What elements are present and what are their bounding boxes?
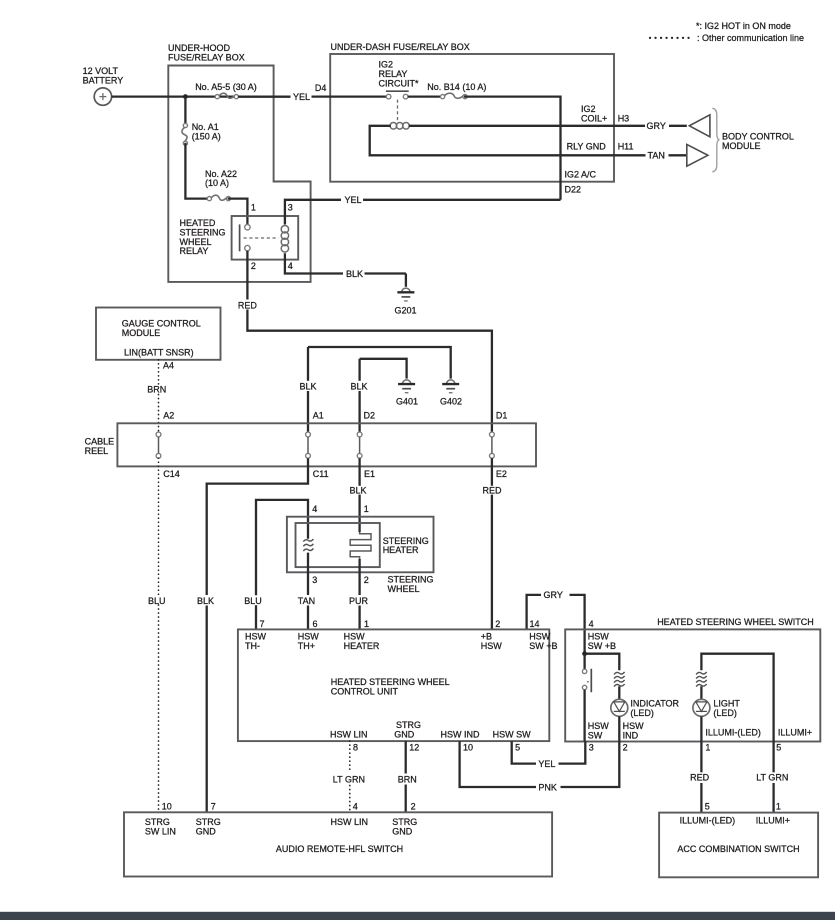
cable reel slip-ring contact A2-C14 xyxy=(156,432,161,458)
heated steering wheel control unit label xyxy=(331,677,450,696)
wire label BRN (STRG GND) xyxy=(398,775,417,785)
pin label 4 (steering heater) xyxy=(312,504,317,514)
wire label PNK (HSW IND) xyxy=(538,782,557,792)
wire label BLK (C11) xyxy=(197,596,214,606)
svg-text:E2: E2 xyxy=(496,469,507,479)
wire label PUR xyxy=(349,596,369,606)
heated steering wheel relay label xyxy=(180,218,226,256)
resistor for indicator LED xyxy=(614,672,625,687)
wire: control unit pin 14 to switch pin 4 (GRY) xyxy=(527,595,585,654)
relay K1 actuator dashed link xyxy=(244,237,279,239)
svg-text:HSW SW: HSW SW xyxy=(493,729,532,739)
ground G201 label xyxy=(395,305,417,315)
wire label RED (relay pin 2) xyxy=(238,300,258,310)
steering wheel box outline xyxy=(287,517,434,573)
svg-text:TAN: TAN xyxy=(648,151,665,161)
pin label 3 (steering heater) xyxy=(312,575,317,585)
wire: relay pin 3 to YEL (IG2 A/C feed) xyxy=(285,200,561,225)
svg-text:LT GRN: LT GRN xyxy=(333,775,365,785)
ground G401 label xyxy=(396,397,418,407)
heater element resistor xyxy=(350,532,371,559)
svg-text:HEATER: HEATER xyxy=(344,641,380,651)
svg-text:RLY GND: RLY GND xyxy=(567,142,607,152)
svg-text:REEL: REEL xyxy=(85,446,109,456)
wire label YEL (HSW SW) xyxy=(538,759,555,769)
svg-text:WHEEL: WHEEL xyxy=(388,584,420,594)
svg-text:14: 14 xyxy=(530,619,540,629)
svg-text:PUR: PUR xyxy=(349,596,369,606)
wire: switch contact to pin 3 xyxy=(583,690,585,741)
svg-text:2: 2 xyxy=(495,619,500,629)
svg-text:4: 4 xyxy=(353,801,358,811)
svg-text:7: 7 xyxy=(211,801,216,811)
svg-text:AUDIO REMOTE-HFL SWITCH: AUDIO REMOTE-HFL SWITCH xyxy=(276,844,403,854)
light LED label xyxy=(713,698,740,717)
pin label 12 STRG GND xyxy=(394,720,421,753)
junction dot at switch pin 4 node xyxy=(582,651,587,656)
wire label BRN (LIN) xyxy=(147,384,166,394)
svg-text:10: 10 xyxy=(162,801,172,811)
steering heater box outline xyxy=(296,523,380,567)
fuse F2 No. B14 (10 A) label xyxy=(427,82,486,92)
svg-text:MODULE: MODULE xyxy=(122,328,161,338)
wire label YEL (battery feed) xyxy=(293,92,310,102)
svg-text:SW +B: SW +B xyxy=(588,641,616,651)
svg-text:COIL+: COIL+ xyxy=(581,114,607,124)
gauge control module box xyxy=(96,308,221,360)
legend: other communication line (dotted sample + text) xyxy=(650,33,804,43)
svg-text:No. B14 (10 A): No. B14 (10 A) xyxy=(427,82,486,92)
svg-text:MODULE: MODULE xyxy=(722,141,761,151)
svg-text:CONTROL UNIT: CONTROL UNIT xyxy=(331,686,399,696)
body control module brace xyxy=(712,108,719,172)
light LED D2 symbol xyxy=(693,699,710,716)
wire: IG2 relay coil- to RLY GND H11 (TAN) xyxy=(370,126,687,156)
svg-text:GRY: GRY xyxy=(647,121,666,131)
svg-text:: Other communication line: : Other communication line xyxy=(697,33,804,43)
svg-text:SW LIN: SW LIN xyxy=(145,826,176,836)
heated steering wheel control unit box xyxy=(238,629,549,741)
wire: indicator LED to pin 2 xyxy=(618,716,620,741)
svg-text:RED: RED xyxy=(238,300,258,310)
svg-text:No. A5-5 (30 A): No. A5-5 (30 A) xyxy=(195,82,257,92)
svg-text:HSW LIN: HSW LIN xyxy=(331,817,369,827)
wire: fuse B14 to IG2 A/C D22 vertical xyxy=(464,97,561,200)
pin label 4 HSW SW +B (switch) xyxy=(588,619,616,651)
svg-text:IND: IND xyxy=(623,731,639,741)
steering wheel label xyxy=(388,575,434,594)
pin label D4 xyxy=(315,83,327,93)
indicator LED label xyxy=(630,698,679,717)
svg-text:H11: H11 xyxy=(618,142,634,152)
pin label 2 (steering heater) xyxy=(364,575,369,585)
svg-text:RED: RED xyxy=(483,485,503,495)
relay K1 pin label 1 xyxy=(251,202,256,212)
pin label A4 xyxy=(163,361,174,371)
pin label HSW IND 2 (switch) xyxy=(623,721,645,752)
relay K1 armature bar xyxy=(239,224,241,251)
svg-text:GND: GND xyxy=(392,826,413,836)
svg-text:GND: GND xyxy=(394,729,415,739)
body control module output triangle (TAN) xyxy=(687,144,708,166)
wire label BLU (LIN) xyxy=(148,596,166,606)
svg-text:IG2 A/C: IG2 A/C xyxy=(565,170,597,180)
pin label 10 HSW IND xyxy=(441,729,480,752)
pin label 5 HSW SW xyxy=(493,729,532,752)
svg-text:HEATED STEERING WHEEL SWITCH: HEATED STEERING WHEEL SWITCH xyxy=(657,617,814,627)
relay K1 pin label 4 xyxy=(288,261,293,271)
cable reel slip-ring contact A1-C11 xyxy=(306,432,311,458)
wire label RED (ILLUMI-) xyxy=(690,773,710,783)
cable reel label xyxy=(85,437,115,456)
wire label GRY (pin14) xyxy=(544,590,563,600)
audio remote-HFL switch label xyxy=(276,844,403,854)
svg-text:3: 3 xyxy=(312,575,317,585)
svg-text:C11: C11 xyxy=(313,469,329,479)
relay K1 pin label 3 xyxy=(288,202,293,212)
svg-text:1: 1 xyxy=(705,743,710,753)
wire: control unit pin 8 HSW LIN dotted to audio switch pin 4 (LT GRN) xyxy=(349,741,351,812)
wire: cable reel D2 BLK up and over to G401 xyxy=(360,359,407,432)
svg-text:BRN: BRN xyxy=(398,775,417,785)
pin label 8 HSW LIN xyxy=(330,729,368,752)
wire: LIN dotted C14 down to audio switch pin 10 (BLU) xyxy=(158,458,160,812)
wire label YEL (relay pin 3) xyxy=(345,195,362,205)
svg-text:BATTERY: BATTERY xyxy=(83,75,124,85)
wire: relay pin 4 to G201 (BLK) xyxy=(285,253,406,287)
svg-text:LIN(BATT SNSR): LIN(BATT SNSR) xyxy=(124,348,194,358)
wire: junction down to fuse A1 xyxy=(184,97,186,126)
svg-text:YEL: YEL xyxy=(345,195,362,205)
ACC combination switch label xyxy=(677,844,799,854)
pin label 7 HSW TH- xyxy=(245,619,267,651)
svg-text:SW +B: SW +B xyxy=(529,641,557,651)
svg-text:BLK: BLK xyxy=(197,596,214,606)
svg-text:BLU: BLU xyxy=(244,596,262,606)
pin label IG2 A/C D22 xyxy=(565,170,597,195)
svg-text:HEATER: HEATER xyxy=(383,545,419,555)
wire: heater pin 4 jog to BLU column to control unit pin 7 xyxy=(256,500,308,630)
ground G201 symbol xyxy=(397,288,414,301)
svg-text:SW: SW xyxy=(588,731,603,741)
pin label IG2 COIL+ H3 xyxy=(581,104,629,124)
svg-text:BLK: BLK xyxy=(351,381,368,391)
pin label 4 HSW LIN (audio) xyxy=(331,801,369,827)
pin label 10 STRG SW LIN xyxy=(145,801,176,836)
pin label E1 xyxy=(364,469,375,479)
relay K1 pin label 2 xyxy=(251,261,256,271)
svg-text:5: 5 xyxy=(776,743,781,753)
battery B1 symbol xyxy=(94,88,111,105)
wire: LIN dotted A4 to cable reel A2 (BRN) xyxy=(158,360,160,432)
pin label E2 xyxy=(496,469,507,479)
relay K1 outline xyxy=(232,216,299,260)
pin label A1 xyxy=(313,411,324,421)
svg-text:BLK: BLK xyxy=(346,269,363,279)
svg-text:5: 5 xyxy=(705,801,710,811)
svg-text:D1: D1 xyxy=(496,411,508,421)
wire: IG2 relay contact to fuse B14 xyxy=(408,95,444,97)
svg-text:ACC COMBINATION SWITCH: ACC COMBINATION SWITCH xyxy=(677,844,799,854)
svg-text:H3: H3 xyxy=(618,114,630,124)
switch S1 contacts xyxy=(582,669,591,693)
svg-text:IG2: IG2 xyxy=(581,104,596,114)
wire label LT GRN (ILLUMI+) xyxy=(756,773,788,783)
wire: switch pin 5 to ACC combination switch pin 1 (LT GRN) xyxy=(772,741,774,813)
svg-text:RED: RED xyxy=(690,773,710,783)
svg-text:A4: A4 xyxy=(163,361,174,371)
svg-text:2: 2 xyxy=(251,261,256,271)
svg-text:4: 4 xyxy=(589,619,594,629)
wire: cable reel A1 BLK up and over to G402 xyxy=(308,347,451,432)
bottom toolbar strip xyxy=(0,912,835,920)
fuse F1 No. A5-5 symbol xyxy=(215,93,238,99)
wire: pin 4 node down to switch contact xyxy=(583,654,585,670)
IG2 relay coil xyxy=(390,123,409,130)
gauge control module label xyxy=(122,319,201,358)
svg-text:10: 10 xyxy=(463,743,473,753)
svg-text:1: 1 xyxy=(776,801,781,811)
pin label 2 STRG GND (audio) xyxy=(392,801,417,836)
svg-text:1: 1 xyxy=(251,202,256,212)
under-hood fuse/relay box title xyxy=(168,43,245,62)
junction dot at battery feed split xyxy=(183,94,188,99)
cable reel slip-ring contact D1-E2 xyxy=(490,432,495,458)
svg-text:D4: D4 xyxy=(315,83,327,93)
thermistor sensor in steering heater xyxy=(303,539,313,551)
svg-text:E1: E1 xyxy=(364,469,375,479)
svg-text:BLU: BLU xyxy=(148,596,166,606)
wire: resistor to indicator LED xyxy=(618,686,620,699)
wire: heater pin 3 TAN down to control unit pin 6 xyxy=(307,553,309,630)
relay K1 coil xyxy=(281,226,288,253)
svg-text:G201: G201 xyxy=(395,305,417,315)
svg-text:6: 6 xyxy=(313,619,318,629)
wire: control unit pin 12 STRG GND to audio switch pin 2 (BRN) xyxy=(405,741,407,812)
pin label D2 xyxy=(364,411,376,421)
svg-text:PNK: PNK xyxy=(538,782,557,792)
svg-text:8: 8 xyxy=(353,743,358,753)
pin label A2 xyxy=(163,411,174,421)
fuse F2 No. B14 symbol xyxy=(441,93,468,99)
svg-text:(150 A): (150 A) xyxy=(192,131,221,141)
svg-text:4: 4 xyxy=(288,261,293,271)
pin label 7 STRG GND (audio) xyxy=(196,801,221,836)
svg-text:7: 7 xyxy=(260,619,265,629)
svg-text:2: 2 xyxy=(364,575,369,585)
svg-text:G402: G402 xyxy=(440,397,462,407)
under-hood fuse/relay box outline xyxy=(168,66,310,282)
wire label TAN xyxy=(648,151,665,161)
resistor for light LED xyxy=(696,672,707,687)
wire: light LED to pin 1 xyxy=(700,716,702,741)
under-dash fuse/relay box title xyxy=(331,42,470,52)
svg-text:ILLUMI+: ILLUMI+ xyxy=(756,816,790,826)
fuse F4 No. A22 (10 A) label xyxy=(205,169,237,188)
svg-text:ILLUMI+: ILLUMI+ xyxy=(778,728,812,738)
cable reel slip-ring contact D2-E1 xyxy=(357,432,362,458)
svg-text:LT GRN: LT GRN xyxy=(756,773,788,783)
pin label D1 xyxy=(496,411,508,421)
svg-text:(LED): (LED) xyxy=(713,708,737,718)
IG2 relay circuit label xyxy=(379,60,419,89)
pin label 5 ILLUMI-(LED) (ACC) xyxy=(680,801,736,825)
body control module input triangle (GRY) xyxy=(689,115,710,137)
wire: control unit pin 5 to switch pin 3 (YEL) xyxy=(512,741,586,764)
pin label 1 ILLUMI+ (ACC) xyxy=(756,801,790,825)
svg-text:(LED): (LED) xyxy=(630,708,654,718)
svg-text:*: IG2 HOT in ON mode: *: IG2 HOT in ON mode xyxy=(696,21,791,31)
wire: heater pin 2 PUR down to control unit pin 1 xyxy=(358,559,360,630)
heated steering wheel switch title xyxy=(657,617,814,627)
svg-text:ILLUMI-(LED): ILLUMI-(LED) xyxy=(705,728,761,738)
svg-text:GND: GND xyxy=(196,826,217,836)
svg-text:BLK: BLK xyxy=(350,485,367,495)
cable reel box xyxy=(117,423,536,466)
pin label 1 HSW HEATER xyxy=(344,619,380,651)
wire label GRY xyxy=(647,121,666,131)
wire: battery to junction and fuse A5-5 (YEL label, D4) xyxy=(112,95,291,97)
battery B1 12 VOLT BATTERY label xyxy=(83,66,124,85)
pin label 2 +B HSW xyxy=(481,619,503,651)
audio remote-HFL switch box xyxy=(124,812,552,876)
svg-text:(10 A): (10 A) xyxy=(205,178,229,188)
svg-text:HSW: HSW xyxy=(481,641,503,651)
svg-text:BLK: BLK xyxy=(300,381,317,391)
svg-text:12: 12 xyxy=(409,743,419,753)
wire label LT GRN (HSW LIN) xyxy=(333,775,365,785)
wire label BLK (A1) xyxy=(300,381,317,391)
pin label C14 xyxy=(163,469,180,479)
relay K1 contact pins xyxy=(245,225,250,251)
svg-text:4: 4 xyxy=(312,504,317,514)
svg-text:C14: C14 xyxy=(163,469,180,479)
svg-text:D22: D22 xyxy=(565,184,582,194)
pin label C11 xyxy=(313,469,329,479)
svg-text:YEL: YEL xyxy=(293,92,310,102)
indicator LED D1 symbol xyxy=(611,699,628,716)
fuse F3 No. A1 symbol xyxy=(182,123,188,145)
wire: resistor to light LED xyxy=(700,686,702,699)
wire: fuse A1 to fuse A22 xyxy=(185,143,210,199)
wire: fuse A22 to relay pin 1 xyxy=(228,199,248,225)
wire: IG2 relay coil+ to H3 (GRY) xyxy=(409,125,687,127)
svg-text:CIRCUIT*: CIRCUIT* xyxy=(379,78,419,88)
pin label 1 (steering heater) xyxy=(364,504,369,514)
heated steering wheel switch box xyxy=(565,629,820,741)
svg-text:2: 2 xyxy=(623,743,628,753)
wire: ILLUMI+ feed to light branch xyxy=(701,654,773,741)
pin label ILLUMI-(LED) 1 (switch) xyxy=(705,728,761,753)
svg-text:5: 5 xyxy=(515,743,520,753)
svg-text:ILLUMI-(LED): ILLUMI-(LED) xyxy=(680,816,736,826)
body control module label xyxy=(722,131,794,150)
wire: switch pin 1 to ACC combination switch pin 5 (RED) xyxy=(700,741,702,813)
pin label HSW SW 3 (switch) xyxy=(588,721,610,752)
wire label BLK (E1) xyxy=(350,485,367,495)
legend note: IG2 HOT in ON mode xyxy=(696,21,791,31)
wire label BLK (relay pin 4) xyxy=(346,269,363,279)
svg-text:A1: A1 xyxy=(313,411,324,421)
pin label 14 HSW SW +B xyxy=(529,619,557,651)
ground G401 symbol xyxy=(398,380,415,393)
wire: pin 4 node to indicator branch xyxy=(585,654,620,671)
svg-text:YEL: YEL xyxy=(538,759,555,769)
wire: relay pin 2 RED down to cable reel D1 xyxy=(247,251,492,432)
wire label TAN xyxy=(298,596,315,606)
wire label BLU (TH-) xyxy=(244,596,262,606)
svg-text:3: 3 xyxy=(288,202,293,212)
fuse F3 No. A1 (150 A) label xyxy=(192,122,221,141)
wire: C11 jog to BLK column to audio switch pin 7 xyxy=(207,458,308,812)
wire: E1 BLK down to steering heater pin 1 xyxy=(358,458,360,532)
pin label ILLUMI+ 5 (switch) xyxy=(776,728,812,753)
fuse F4 No. A22 symbol xyxy=(207,195,230,201)
svg-text:1: 1 xyxy=(364,619,369,629)
svg-text:D2: D2 xyxy=(364,411,376,421)
svg-text:G401: G401 xyxy=(396,397,418,407)
wire label BLK (D2) xyxy=(351,381,368,391)
svg-text:FUSE/RELAY BOX: FUSE/RELAY BOX xyxy=(168,52,245,62)
svg-text:1: 1 xyxy=(364,504,369,514)
svg-text:TAN: TAN xyxy=(298,596,315,606)
wire: E2 RED down to control unit pin 2 +B HSW xyxy=(491,458,493,629)
IG2 relay contacts and armature xyxy=(386,91,409,122)
pin label RLY GND H11 xyxy=(567,142,634,152)
fuse F1 No. A5-5 (30 A) label xyxy=(195,82,257,92)
under-dash fuse/relay box outline xyxy=(330,54,614,182)
svg-text:BRN: BRN xyxy=(147,384,166,394)
wire: fuse A5-5 output xyxy=(238,95,291,97)
svg-text:A2: A2 xyxy=(163,411,174,421)
svg-text:HSW LIN: HSW LIN xyxy=(330,729,368,739)
svg-text:TH-: TH- xyxy=(245,641,260,651)
ACC combination switch box xyxy=(659,813,818,878)
svg-text:2: 2 xyxy=(411,801,416,811)
pin label 6 HSW TH+ xyxy=(298,619,320,651)
svg-text:HSW IND: HSW IND xyxy=(441,729,480,739)
svg-text:3: 3 xyxy=(589,743,594,753)
svg-text:UNDER-DASH FUSE/RELAY BOX: UNDER-DASH FUSE/RELAY BOX xyxy=(331,42,470,52)
ground G402 label xyxy=(440,397,462,407)
svg-text:TH+: TH+ xyxy=(298,641,315,651)
wire: control unit pin 10 to switch pin 2 (PNK) xyxy=(460,741,620,787)
ground G402 symbol xyxy=(442,380,459,393)
steering heater label xyxy=(383,536,429,555)
svg-text:GRY: GRY xyxy=(544,590,563,600)
wire label RED (E2) xyxy=(483,485,503,495)
wire: YEL into under-dash box to IG2 relay contact xyxy=(312,95,387,97)
svg-text:RELAY: RELAY xyxy=(180,246,209,256)
